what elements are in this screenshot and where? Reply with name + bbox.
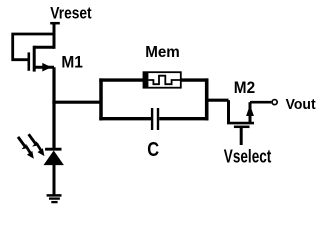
wire xyxy=(99,78,208,81)
svg-text:Vselect: Vselect xyxy=(224,146,271,167)
Vout terminal xyxy=(272,100,277,105)
capacitor C xyxy=(152,108,158,130)
wire xyxy=(99,117,151,120)
memristor Mem xyxy=(143,72,181,89)
svg-text:Vout: Vout xyxy=(286,97,316,113)
Vreset terminal xyxy=(50,22,60,25)
wire xyxy=(207,99,229,102)
photodiode xyxy=(44,149,64,165)
wire xyxy=(159,117,208,120)
svg-text:Vreset: Vreset xyxy=(50,5,92,23)
wire xyxy=(99,78,103,120)
svg-text:Mem: Mem xyxy=(145,44,180,61)
ground xyxy=(47,195,62,202)
wire xyxy=(53,165,56,195)
svg-text:C: C xyxy=(147,138,159,161)
wire xyxy=(13,34,54,60)
svg-text:M2: M2 xyxy=(234,79,255,97)
transistor M2 xyxy=(227,102,254,127)
wire xyxy=(52,67,55,148)
wire xyxy=(250,101,271,104)
transistor M1 xyxy=(29,46,54,72)
svg-text:M1: M1 xyxy=(61,54,83,72)
light arrow 2 xyxy=(29,134,45,156)
wire xyxy=(205,78,209,120)
wire xyxy=(52,101,101,104)
wire xyxy=(227,100,230,123)
light arrow 1 xyxy=(18,137,34,159)
wire xyxy=(240,127,243,145)
wire xyxy=(53,23,56,49)
